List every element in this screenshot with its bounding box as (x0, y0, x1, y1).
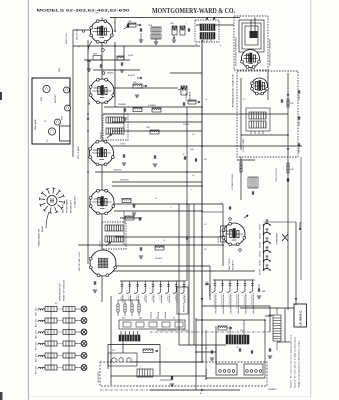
svg-text:600 KC OSC.: 600 KC OSC. (66, 32, 68, 44)
svg-text:OSCILLATOR: OSCILLATOR (97, 371, 100, 383)
svg-text:ANT. OSC: ANT. OSC (35, 341, 38, 350)
svg-text:ANT. OSC: ANT. OSC (35, 307, 38, 316)
svg-text:5 BLUE: 5 BLUE (183, 124, 190, 126)
svg-text:40 MMF: 40 MMF (260, 242, 262, 248)
svg-text:6D6 I.F. AMP.: 6D6 I.F. AMP. (77, 146, 80, 159)
svg-text:6Y5: 6Y5 (112, 350, 115, 352)
svg-text:VOLUME: VOLUME (186, 92, 188, 101)
svg-text:ANT. OSC.: ANT. OSC. (62, 202, 65, 213)
svg-text:.1: .1 (170, 207, 171, 209)
svg-text:.05: .05 (236, 347, 238, 349)
svg-text:B+: B+ (200, 393, 202, 395)
svg-text:.25: .25 (243, 99, 245, 101)
svg-text:I.F. 456 K.C.: I.F. 456 K.C. (299, 310, 303, 326)
svg-text:6A7 DET: 6A7 DET (54, 93, 57, 103)
svg-text:50,000: 50,000 (128, 55, 133, 57)
svg-text:8MF: 8MF (262, 291, 265, 293)
svg-text:INDICATOR: INDICATOR (232, 260, 235, 270)
svg-text:ANT. OSC: ANT. OSC (35, 353, 38, 362)
svg-text:VIEW FROM TOP: VIEW FROM TOP (60, 283, 62, 301)
svg-text:25M: 25M (128, 21, 132, 23)
svg-text:Y-560 KC: Y-560 KC (101, 131, 103, 139)
svg-text:.02: .02 (205, 348, 207, 350)
svg-text:1 MEG: 1 MEG (218, 237, 220, 243)
svg-text:Switch “B” with 110 V. 1,2&4 c: Switch “B” with 110 V. 1,2&4 combination… (294, 336, 297, 388)
svg-text:6 BROWN: 6 BROWN (120, 180, 129, 182)
svg-text:“Rdg” at standard bias directi: “Rdg” at standard bias directions, amps. (298, 340, 301, 388)
svg-text:WAVE BAND SW.: WAVE BAND SW. (38, 228, 41, 246)
svg-text:5 RED: 5 RED (120, 144, 126, 146)
svg-text:40 MMF: 40 MMF (260, 224, 262, 230)
svg-text:MOTOR NOISE SUPPRESSOR: MOTOR NOISE SUPPRESSOR (236, 37, 238, 66)
svg-text:RESISTOR: RESISTOR (184, 302, 186, 312)
svg-text:50M: 50M (146, 127, 150, 129)
svg-text:Switch “B” may be open=on ligh: Switch “B” may be open=on lightweight po… (290, 334, 293, 388)
svg-text:MONTGOMERY-WARD & CO.: MONTGOMERY-WARD & CO. (152, 8, 235, 15)
svg-text:TRIM: TRIM (148, 25, 153, 27)
svg-text:POWER TRANS.: POWER TRANS. (242, 138, 245, 152)
svg-text:40 MMF: 40 MMF (260, 269, 262, 275)
svg-text:PRONG END OF VIBRATOR: PRONG END OF VIBRATOR (269, 38, 272, 66)
svg-text:.02: .02 (192, 175, 194, 177)
svg-text:NO.5 BLACK: NO.5 BLACK (209, 284, 212, 296)
svg-text:ANTENNA GROUND CONNECTION: ANTENNA GROUND CONNECTION (232, 74, 235, 107)
svg-text:43: 43 (173, 318, 175, 320)
svg-text:TRIMMER: TRIMMER (118, 104, 127, 106)
svg-text:MODELS 62-363,62-463,62-650: MODELS 62-363,62-463,62-650 (37, 8, 131, 13)
svg-text:ANT. OSC: ANT. OSC (35, 365, 38, 374)
svg-text:75: 75 (156, 318, 158, 320)
svg-text:OSCILLATOR: OSCILLATOR (205, 368, 208, 380)
svg-text:6A7: 6A7 (139, 317, 142, 320)
svg-text:6D6: 6D6 (122, 318, 125, 320)
svg-text:40 MMF: 40 MMF (260, 233, 262, 239)
svg-text:TONE CONTROL: TONE CONTROL (276, 168, 278, 182)
svg-text:15M: 15M (290, 103, 294, 105)
svg-text:.05: .05 (220, 203, 222, 205)
svg-text:.5: .5 (140, 366, 141, 368)
svg-text:RESISTANCE MEASURED TO CHASSIS: RESISTANCE MEASURED TO CHASSIS (157, 329, 189, 332)
svg-text:TRIM: TRIM (93, 54, 98, 56)
svg-text:FRONT OF CHASSIS: FRONT OF CHASSIS (63, 279, 66, 301)
svg-text:.05: .05 (192, 134, 194, 136)
svg-text:2ND I.F.: 2ND I.F. (100, 240, 102, 247)
svg-text:6A7 1ST DET.-OSC.: 6A7 1ST DET.-OSC. (78, 251, 81, 271)
svg-text:6 BLACK: 6 BLACK (155, 257, 163, 260)
svg-text:SPEAKER: SPEAKER (268, 388, 277, 391)
svg-text:REAR: REAR (41, 226, 44, 232)
svg-text:75 2ND DET.: 75 2ND DET. (75, 195, 77, 208)
svg-text:OSC.: OSC. (59, 67, 61, 72)
svg-text:TONE SW.: TONE SW. (113, 170, 122, 172)
svg-text:OSC.: OSC. (95, 13, 100, 15)
svg-text:.1: .1 (185, 23, 186, 25)
svg-text:DIAL LAMP: DIAL LAMP (34, 119, 37, 130)
svg-text:ANT. OSC: ANT. OSC (35, 330, 38, 339)
svg-text:.05: .05 (204, 224, 206, 226)
svg-text:25M: 25M (190, 149, 194, 151)
svg-text:.05: .05 (163, 240, 165, 242)
svg-text:10M: 10M (290, 169, 294, 171)
svg-text:.1: .1 (190, 117, 191, 119)
svg-text:50M: 50M (133, 82, 137, 84)
svg-text:CONDENSER: CONDENSER (277, 232, 279, 245)
svg-text:.25: .25 (182, 154, 184, 156)
svg-text:VOLTAGE DIVIDER: VOLTAGE DIVIDER (231, 173, 234, 190)
svg-text:40 MMF: 40 MMF (260, 260, 262, 266)
svg-text:CONTROL: CONTROL (190, 90, 192, 101)
svg-text:6AB5 TUNING: 6AB5 TUNING (228, 258, 231, 270)
svg-text:.01: .01 (155, 198, 157, 200)
svg-text:25M: 25M (170, 23, 174, 25)
svg-text:SHORT WAVE: SHORT WAVE (66, 199, 69, 213)
svg-text:40 MMF: 40 MMF (260, 251, 262, 257)
svg-text:ANT. OSC: ANT. OSC (35, 318, 38, 327)
svg-text:.5: .5 (190, 189, 191, 191)
svg-text:300-550 OSC.: 300-550 OSC. (77, 27, 79, 40)
svg-text:6 GREEN: 6 GREEN (148, 105, 156, 107)
svg-text:BROADCAST: BROADCAST (70, 199, 73, 213)
